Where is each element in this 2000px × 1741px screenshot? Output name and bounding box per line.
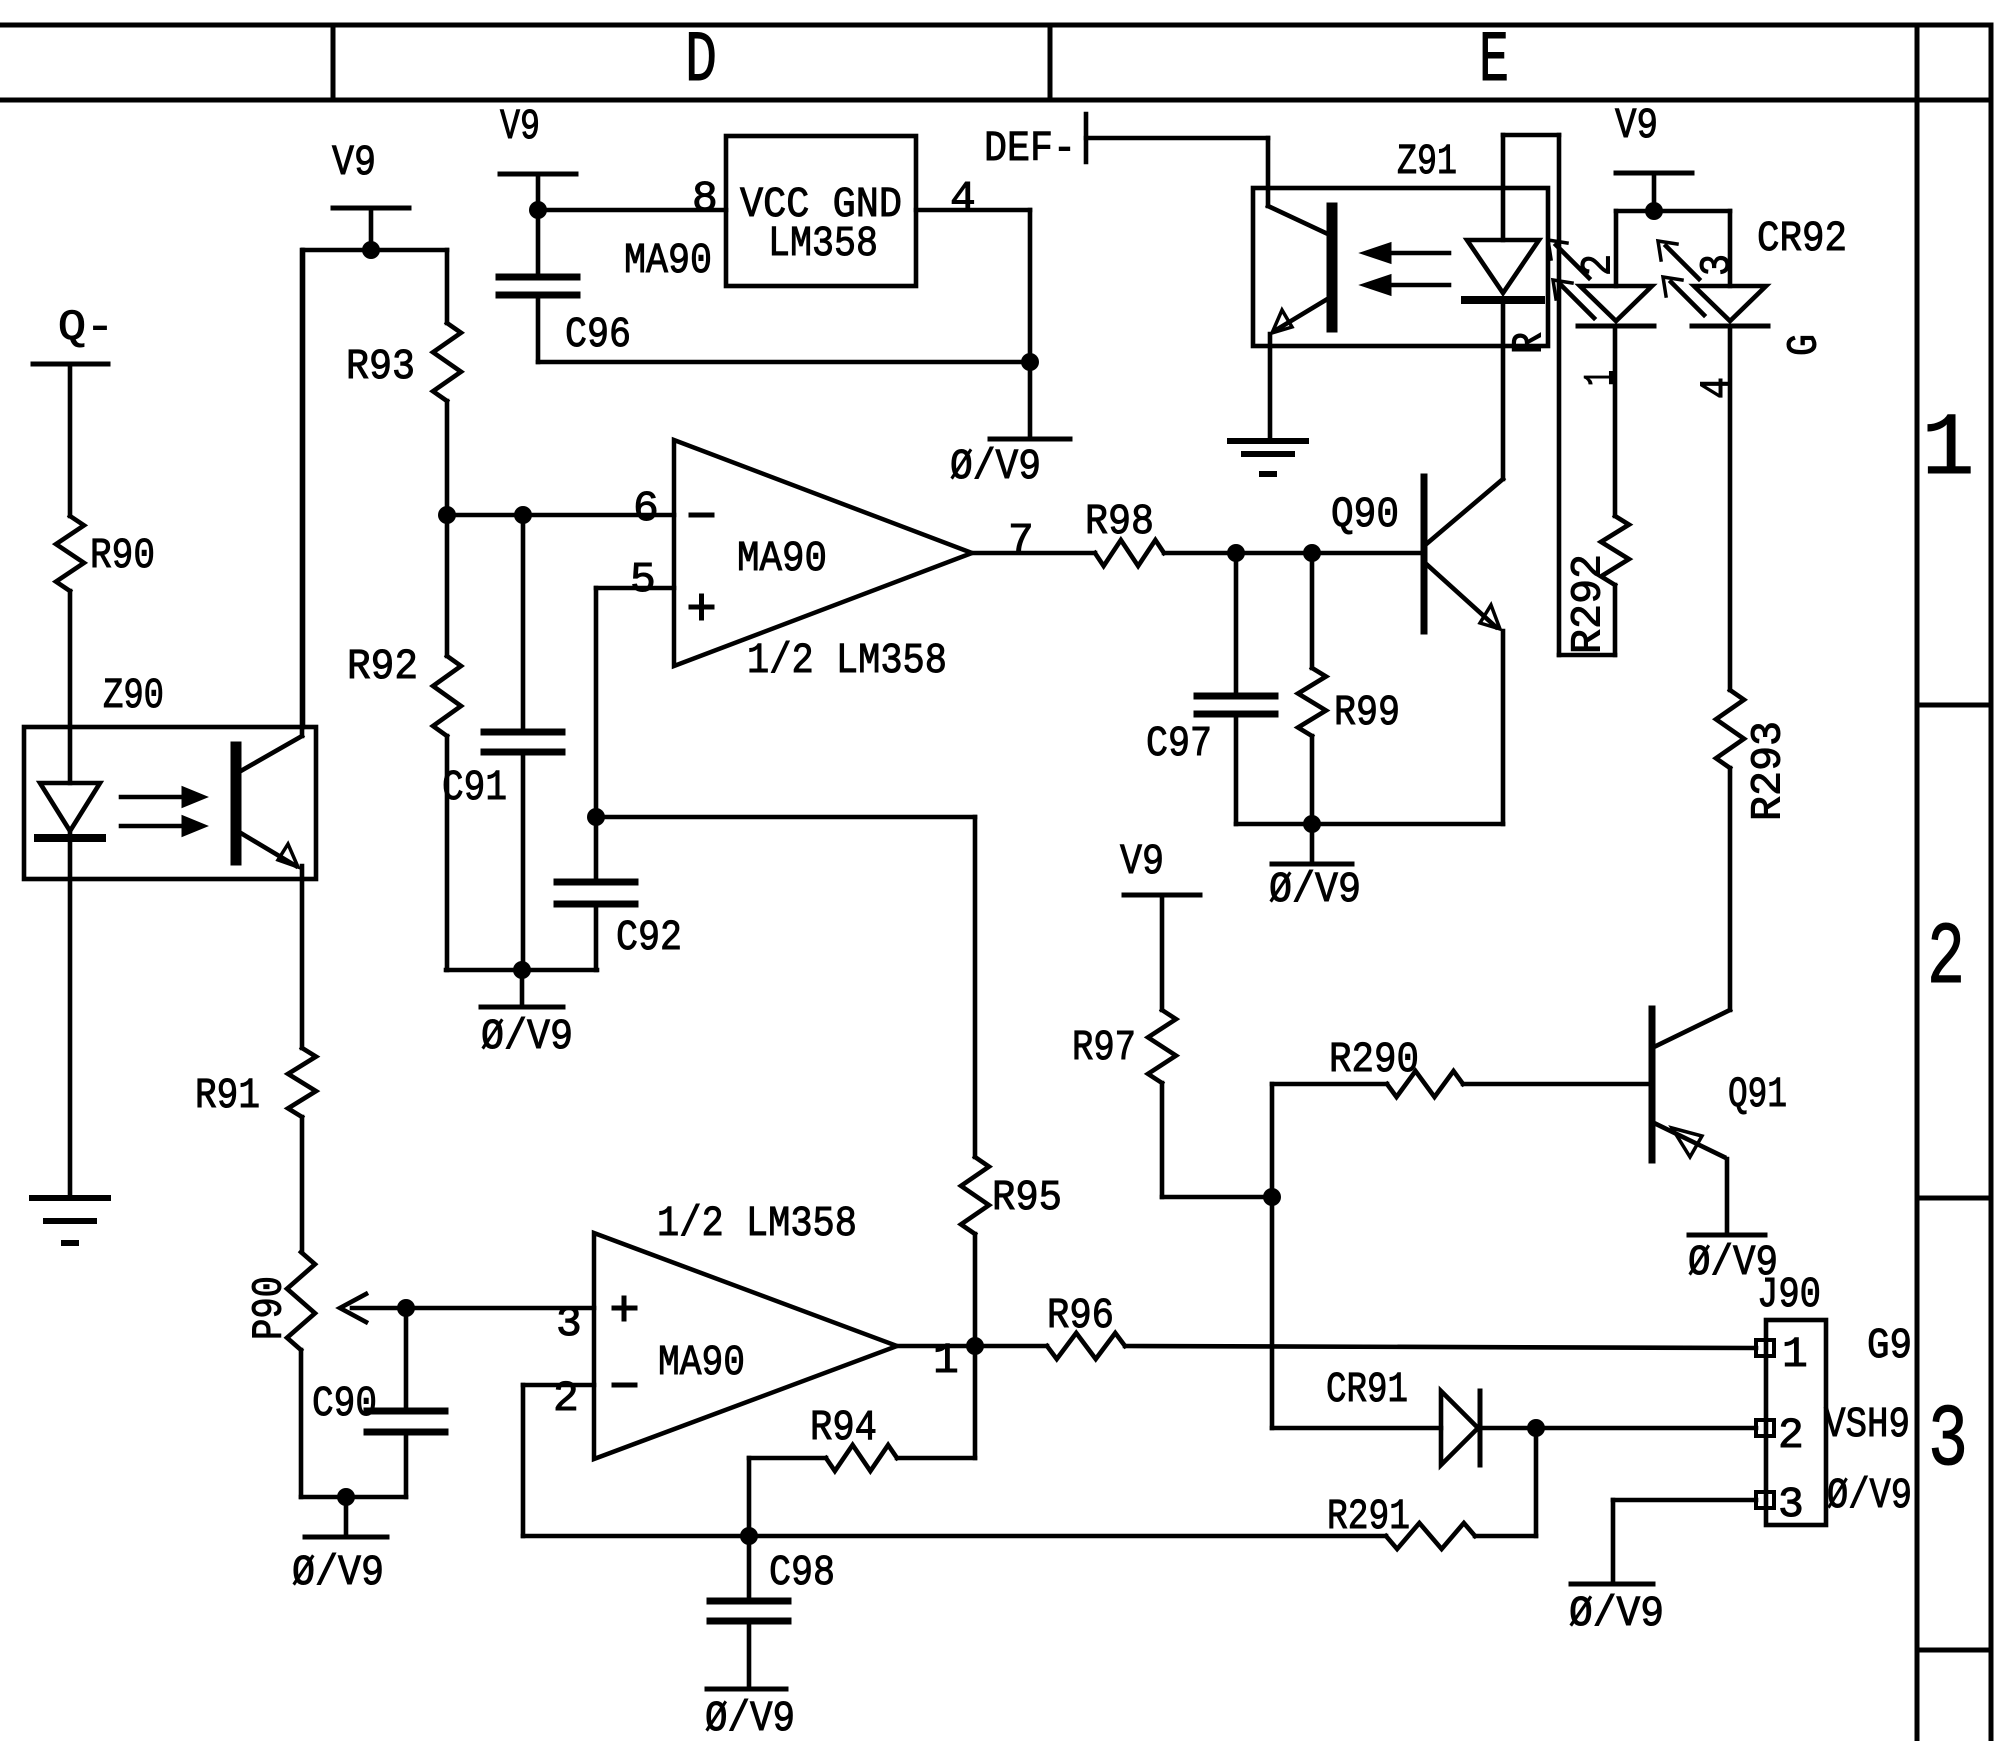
svg-text:R292: R292 <box>1564 554 1613 654</box>
svg-text:C90: C90 <box>312 1379 377 1428</box>
column label D <box>685 20 717 102</box>
svg-text:Q90: Q90 <box>1331 490 1399 539</box>
svg-text:7: 7 <box>1008 516 1034 565</box>
junction R93/R92/pin6 <box>438 506 456 524</box>
op-amp MA90 bottom <box>553 1199 897 1459</box>
junction V9 pin8 C96 <box>529 201 547 219</box>
capacitor C92 <box>557 817 682 970</box>
wire pin 8 <box>538 174 726 223</box>
svg-text:V9: V9 <box>1615 101 1658 150</box>
junction C90 ground tap <box>337 1488 355 1506</box>
svg-text:R290: R290 <box>1329 1035 1419 1084</box>
svg-text:C98: C98 <box>769 1548 835 1597</box>
wire Z91 LED cathode to Q90 collector <box>1501 300 1506 479</box>
border right row divider 1 <box>1917 703 1991 708</box>
svg-text:2: 2 <box>1927 910 1965 1009</box>
wire R93 top <box>445 250 450 323</box>
node Q- <box>33 303 114 364</box>
junction output R95 R94 <box>966 1337 984 1355</box>
svg-text:D: D <box>685 20 717 102</box>
svg-text:3: 3 <box>1778 1480 1804 1529</box>
svg-text:4: 4 <box>1693 377 1742 399</box>
svg-text:R90: R90 <box>90 531 155 580</box>
wire op-amp pin 2 loop <box>523 1385 594 1536</box>
diode CR92 arrows left <box>1548 240 1594 318</box>
net label VSH9 <box>1824 1400 1910 1449</box>
junction pin4 C96 <box>1021 353 1039 371</box>
svg-text:R95: R95 <box>992 1173 1062 1222</box>
junction C97 tap <box>1227 544 1245 562</box>
svg-text:2: 2 <box>553 1374 579 1423</box>
ground under Z91 <box>1230 441 1306 474</box>
optocoupler Z91 box <box>1253 137 1548 346</box>
wire C96 bottom to pin4 net <box>538 360 1030 365</box>
resistor R95 <box>961 817 1062 1346</box>
wire R98 to Q90 base <box>1164 551 1424 556</box>
svg-text:CR92: CR92 <box>1757 214 1847 263</box>
wire Q- to R90 <box>68 364 73 516</box>
power V9 at C96 <box>500 102 576 210</box>
transistor Q91 <box>1652 1009 1787 1235</box>
wire pin5 node to R95 <box>596 815 975 820</box>
svg-text:5: 5 <box>630 555 656 604</box>
pin label 2 CR92 <box>1574 254 1623 276</box>
optocoupler Z91 pin label R <box>1505 332 1554 354</box>
junction C91 tap pin6 <box>514 506 532 524</box>
svg-text:4: 4 <box>950 174 976 223</box>
border title strip top line <box>0 23 1991 28</box>
wire Z90 LED cathode to ground <box>68 831 73 1198</box>
node DEF- <box>984 114 1086 173</box>
pin label 1 CR92 <box>1577 370 1626 386</box>
junction CR92 anode <box>1645 202 1663 220</box>
svg-text:G: G <box>1780 334 1829 356</box>
svg-text:V9: V9 <box>1120 837 1164 886</box>
svg-text:V9: V9 <box>332 138 376 187</box>
svg-text:Z90: Z90 <box>103 671 164 720</box>
power 0/V9 under C90 <box>292 1497 387 1597</box>
row label 1 <box>1922 401 1975 500</box>
resistor R99 <box>1298 553 1400 824</box>
junction emitter net 0/V9 <box>1303 815 1321 833</box>
power V9 at R97 <box>1120 837 1200 1010</box>
connector J90 box <box>1757 1270 1826 1525</box>
wire 0/V9 net bottom of R92 C91 <box>446 968 597 973</box>
wire J90 pin 3 <box>1613 1500 1756 1584</box>
power 0/V9 under pin4 <box>950 362 1070 491</box>
ground under Z90 <box>32 1198 108 1243</box>
svg-text:MA90: MA90 <box>624 236 712 285</box>
svg-text:R91: R91 <box>195 1071 260 1120</box>
junction V9 R93 top <box>362 241 380 259</box>
svg-text:Ø/V9: Ø/V9 <box>705 1694 795 1741</box>
optocoupler Z91 phototransistor <box>1268 206 1332 333</box>
resistor R292 <box>1564 328 1630 655</box>
connector J90 pin 2 <box>1756 1411 1804 1460</box>
wire top loop <box>303 250 447 727</box>
resistor R293 <box>1716 326 1793 1010</box>
svg-text:1: 1 <box>1922 401 1975 500</box>
svg-text:R93: R93 <box>346 342 415 391</box>
connector J90 pin 3 <box>1756 1480 1804 1529</box>
svg-text:VSH9: VSH9 <box>1824 1400 1910 1449</box>
capacitor C98 <box>710 1536 835 1689</box>
svg-text:R: R <box>1505 332 1554 354</box>
diode CR92 arrows right <box>1658 241 1704 315</box>
resistor R94 <box>749 1403 975 1471</box>
op-amp U MA90 power box <box>624 136 916 286</box>
svg-text:Z91: Z91 <box>1397 137 1457 186</box>
wire op-amp output pin 1 <box>897 1336 1047 1385</box>
wire feedback net <box>523 1534 1386 1539</box>
wire op-amp pin 7 <box>972 516 1095 565</box>
svg-text:P90: P90 <box>245 1276 294 1340</box>
wire R291 to CR91 cathode <box>1534 1428 1539 1536</box>
svg-text:MA90: MA90 <box>737 534 827 583</box>
junction P90 wiper <box>397 1299 415 1317</box>
wire Q90 emitter net <box>1236 822 1503 827</box>
wire R93 to pin6 node <box>445 401 450 515</box>
border title strip bottom line <box>0 98 1991 103</box>
diode CR91 <box>1272 1365 1756 1465</box>
wire Z91 LED anode loop <box>1503 135 1615 655</box>
wire P90 bottom to 0/V9 net <box>301 1350 406 1497</box>
optocoupler Z90 light arrows <box>121 788 205 835</box>
svg-text:3: 3 <box>556 1299 582 1348</box>
diode CR92 right <box>1692 286 1768 326</box>
optocoupler Z90 box <box>24 671 316 879</box>
power V9 at CR92 <box>1615 101 1692 211</box>
svg-text:C96: C96 <box>565 310 631 359</box>
junction Q91 base net <box>1263 1188 1281 1206</box>
border title divider left <box>331 25 336 100</box>
net label 0/V9 at J90 <box>1827 1471 1912 1520</box>
svg-text:Q91: Q91 <box>1728 1070 1787 1119</box>
junction R99 tap <box>1303 544 1321 562</box>
svg-text:1: 1 <box>1577 370 1626 386</box>
wire R90 to Z90 LED <box>68 591 73 783</box>
capacitor C97 <box>1146 553 1275 824</box>
wire Z90 emitter down to R91 <box>300 866 305 1048</box>
optocoupler Z90 phototransistor <box>236 736 302 867</box>
power V9 top left <box>332 138 409 250</box>
capacitor C96 <box>499 210 631 362</box>
pin label 4 CR92 <box>1693 377 1742 399</box>
border right row divider 3 <box>1917 1648 1991 1653</box>
power 0/V9 under Q90 <box>1269 824 1361 914</box>
svg-text:1/2 LM358: 1/2 LM358 <box>747 636 947 685</box>
row label 3 <box>1928 1392 1968 1491</box>
junction pin5 C92 <box>587 808 605 826</box>
junction 0/V9 tap <box>513 961 531 979</box>
svg-text:DEF-: DEF- <box>984 124 1076 173</box>
power 0/V9 under C98 <box>705 1689 795 1741</box>
resistor R93 <box>346 323 461 401</box>
wire R94 to C98 node <box>747 1458 752 1536</box>
svg-text:C97: C97 <box>1146 719 1212 768</box>
wire Z90 collector up <box>300 250 305 736</box>
column label E <box>1479 20 1509 102</box>
wire DEF- to Z91 <box>1086 138 1268 206</box>
capacitor C90 <box>312 1308 445 1497</box>
border right strip inner line <box>1915 25 1920 1741</box>
svg-text:R293: R293 <box>1744 721 1793 821</box>
svg-text:G9: G9 <box>1867 1321 1912 1370</box>
svg-text:J90: J90 <box>1757 1270 1821 1319</box>
svg-text:Ø/V9: Ø/V9 <box>1269 865 1361 914</box>
svg-text:8: 8 <box>692 174 718 223</box>
svg-text:2: 2 <box>1574 254 1623 276</box>
wire pin 4 <box>916 174 1030 362</box>
wire op-amp pin 5 <box>596 588 674 817</box>
wire CR92 anode loop <box>1616 211 1730 286</box>
svg-text:6: 6 <box>633 484 659 533</box>
wire P90 wiper to op-amp pin 3 <box>406 1306 594 1311</box>
wire R94 riser <box>973 1346 978 1458</box>
svg-text:1: 1 <box>933 1336 959 1385</box>
svg-text:C92: C92 <box>616 913 682 962</box>
svg-text:Ø/V9: Ø/V9 <box>292 1548 384 1597</box>
svg-text:2: 2 <box>1778 1411 1804 1460</box>
svg-text:R98: R98 <box>1085 497 1154 546</box>
border right strip outer line <box>1989 25 1994 1741</box>
svg-text:R94: R94 <box>810 1403 877 1452</box>
potentiometer P90 <box>245 1252 407 1350</box>
svg-text:MA90: MA90 <box>658 1338 745 1387</box>
resistor R290 <box>1272 1035 1652 1097</box>
net label G9 <box>1867 1321 1912 1370</box>
svg-text:V9: V9 <box>500 102 540 151</box>
junction C98 <box>740 1527 758 1545</box>
resistor R92 <box>347 515 461 970</box>
svg-text:R97: R97 <box>1072 1023 1136 1072</box>
wire base net down to CR91 <box>1270 1197 1275 1428</box>
svg-text:Ø/V9: Ø/V9 <box>1827 1471 1912 1520</box>
resistor R91 <box>195 1048 316 1120</box>
pin label 3 CR92 <box>1693 254 1742 276</box>
power 0/V9 under J90 pin3 <box>1569 1584 1664 1638</box>
svg-text:Q-: Q- <box>58 303 114 352</box>
svg-text:Ø/V9: Ø/V9 <box>481 1012 573 1061</box>
junction CR91 cathode J90 pin2 <box>1527 1419 1545 1437</box>
wire R290 riser <box>1270 1084 1275 1197</box>
svg-text:E: E <box>1479 20 1509 102</box>
wire op-amp pin 6 <box>447 513 674 518</box>
op-amp MA90 top <box>630 440 972 685</box>
svg-text:3: 3 <box>1928 1392 1968 1491</box>
resistor R98 <box>1085 497 1164 566</box>
net label G <box>1780 334 1829 356</box>
row label 2 <box>1927 910 1965 1009</box>
connector J90 pin 1 <box>1756 1330 1808 1379</box>
svg-text:1: 1 <box>1782 1330 1808 1379</box>
svg-text:1/2 LM358: 1/2 LM358 <box>657 1199 857 1248</box>
border title divider D/E <box>1048 25 1053 100</box>
label CR92 <box>1757 214 1847 263</box>
power 0/V9 under Q91 <box>1688 1235 1778 1287</box>
svg-text:R92: R92 <box>347 642 418 691</box>
wire Z91 emitter to ground <box>1268 334 1273 441</box>
optocoupler Z91 light arrows <box>1363 244 1449 294</box>
optocoupler Z91 LED <box>1465 240 1541 300</box>
svg-text:R99: R99 <box>1334 688 1400 737</box>
svg-text:LM358: LM358 <box>768 219 878 268</box>
resistor R97 <box>1072 1010 1272 1197</box>
resistor R291 <box>1327 1492 1536 1549</box>
svg-text:R291: R291 <box>1327 1492 1410 1541</box>
svg-text:Ø/V9: Ø/V9 <box>1569 1589 1664 1638</box>
wire R91 to P90 <box>300 1117 305 1252</box>
capacitor C91 <box>442 515 562 970</box>
resistor R96 <box>1047 1291 1756 1359</box>
diode CR92 left <box>1578 286 1654 326</box>
transistor Q90 <box>1331 477 1503 824</box>
svg-text:CR91: CR91 <box>1326 1365 1408 1414</box>
border right row divider 2 <box>1917 1196 1991 1201</box>
svg-text:Ø/V9: Ø/V9 <box>950 442 1041 491</box>
resistor R90 <box>56 516 155 591</box>
svg-text:R96: R96 <box>1047 1291 1114 1340</box>
optocoupler Z90 LED <box>38 783 102 838</box>
svg-text:C91: C91 <box>442 763 507 812</box>
svg-text:3: 3 <box>1693 254 1742 276</box>
power 0/V9 under C91 <box>481 970 573 1061</box>
